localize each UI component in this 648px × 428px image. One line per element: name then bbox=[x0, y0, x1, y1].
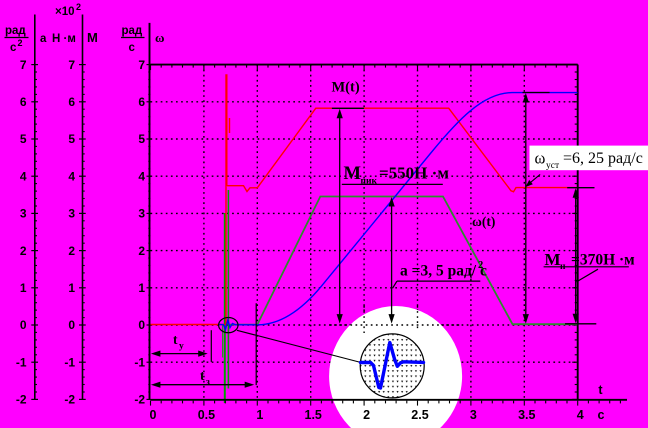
curve w(t) blue bbox=[218, 93, 577, 330]
svg-text:6: 6 bbox=[68, 95, 75, 109]
svg-text:4: 4 bbox=[20, 169, 27, 183]
svg-text:0: 0 bbox=[68, 318, 75, 332]
svg-text:7: 7 bbox=[20, 58, 27, 72]
magnifier white ellipse bbox=[329, 306, 462, 428]
svg-text:5: 5 bbox=[20, 132, 27, 146]
svg-text:ω(t): ω(t) bbox=[472, 214, 495, 229]
w-axis title rad/s bbox=[121, 25, 165, 54]
w_ust white box bbox=[530, 146, 648, 171]
magnified w oscillation waveform blue bbox=[361, 343, 424, 389]
svg-text:рад: рад bbox=[122, 25, 143, 37]
svg-text:-1: -1 bbox=[16, 355, 27, 369]
svg-text:Н ·м: Н ·м bbox=[52, 33, 76, 45]
svg-text:M: M bbox=[344, 164, 361, 184]
svg-text:3: 3 bbox=[20, 207, 27, 221]
svg-text:пик: пик bbox=[361, 177, 378, 187]
svg-text:M: M bbox=[545, 250, 561, 269]
w_ust pointer arrow bbox=[528, 174, 541, 185]
a-axis title rad/s^2 bbox=[5, 25, 48, 54]
svg-text:-2: -2 bbox=[64, 393, 75, 407]
svg-text:ω: ω bbox=[155, 30, 165, 45]
svg-text:M: M bbox=[87, 30, 98, 45]
svg-text:с: с bbox=[10, 42, 17, 54]
svg-text:6: 6 bbox=[138, 95, 145, 109]
svg-text:=370Н ·м: =370Н ·м bbox=[571, 252, 635, 269]
pointer line to magnifier bbox=[237, 330, 361, 362]
svg-text:=550Н ·м: =550Н ·м bbox=[379, 164, 449, 183]
svg-text:2: 2 bbox=[478, 260, 483, 271]
a(t) start-up oscillation spikes green bbox=[222, 325, 224, 358]
svg-text:у: у bbox=[179, 342, 184, 352]
curve a(t) trapezoid dark green bbox=[230, 197, 577, 325]
svg-text:-2: -2 bbox=[16, 393, 27, 407]
a-axis line bbox=[34, 15, 36, 400]
grid horizontal dotted bbox=[151, 102, 578, 362]
svg-text:-1: -1 bbox=[64, 355, 75, 369]
svg-text:2.5: 2.5 bbox=[411, 408, 428, 422]
svg-text:×10: ×10 bbox=[55, 6, 75, 18]
svg-text:1.5: 1.5 bbox=[305, 408, 322, 422]
svg-text:0: 0 bbox=[20, 318, 27, 332]
y=0 dotted line over ellipse bbox=[363, 306, 365, 333]
plot box bbox=[149, 23, 151, 400]
svg-text:2: 2 bbox=[18, 38, 23, 48]
x axis line bbox=[151, 399, 628, 401]
svg-text:ω: ω bbox=[535, 149, 546, 168]
svg-text:5: 5 bbox=[138, 132, 145, 146]
a-axis labels bbox=[16, 58, 27, 407]
svg-text:4: 4 bbox=[138, 169, 145, 183]
svg-text:-2: -2 bbox=[134, 393, 145, 407]
M-axis line bbox=[82, 15, 84, 400]
t_u horizontal double arrow bbox=[154, 353, 205, 355]
svg-text:3: 3 bbox=[138, 207, 145, 221]
M-axis title x10^2 N*m M bbox=[52, 2, 98, 45]
svg-text:0: 0 bbox=[150, 408, 157, 422]
svg-text:t: t bbox=[173, 332, 178, 347]
svg-text:1: 1 bbox=[20, 281, 27, 295]
svg-text:2: 2 bbox=[76, 2, 81, 12]
svg-text:рад: рад bbox=[5, 25, 26, 37]
svg-text:=6, 25 рад/с: =6, 25 рад/с bbox=[563, 150, 643, 167]
svg-text:c: c bbox=[598, 408, 605, 422]
svg-text:с: с bbox=[129, 42, 136, 54]
svg-text:2: 2 bbox=[68, 244, 75, 258]
svg-text:1: 1 bbox=[138, 281, 145, 295]
svg-text:2: 2 bbox=[20, 244, 27, 258]
svg-text:2: 2 bbox=[363, 408, 370, 422]
svg-text:-1: -1 bbox=[134, 355, 145, 369]
svg-text:2: 2 bbox=[138, 244, 145, 258]
small source circle on plot bbox=[219, 318, 238, 333]
svg-text:a =3, 5 рад/ с: a =3, 5 рад/ с bbox=[400, 263, 487, 280]
svg-text:3: 3 bbox=[68, 207, 75, 221]
t_z horizontal double arrow bbox=[154, 384, 251, 386]
Mn right double arrow bbox=[565, 188, 596, 324]
svg-text:7: 7 bbox=[138, 58, 145, 72]
svg-text:1: 1 bbox=[68, 281, 75, 295]
x tick labels bbox=[150, 383, 605, 422]
svg-text:0.5: 0.5 bbox=[198, 408, 215, 422]
grid vertical dotted bbox=[204, 65, 524, 400]
M-axis labels bbox=[64, 58, 75, 407]
svg-text:6: 6 bbox=[20, 95, 27, 109]
svg-text:M(t): M(t) bbox=[332, 80, 360, 96]
svg-text:з: з bbox=[206, 378, 210, 388]
plot border ticks bbox=[147, 65, 578, 400]
curve M(t) red bbox=[151, 74, 578, 324]
svg-text:5: 5 bbox=[68, 132, 75, 146]
w_ust vertical double arrow bbox=[523, 93, 550, 321]
svg-text:уст: уст bbox=[546, 161, 560, 171]
svg-text:3: 3 bbox=[470, 408, 477, 422]
svg-text:1: 1 bbox=[256, 408, 263, 422]
svg-text:4: 4 bbox=[68, 169, 75, 183]
w-axis labels bbox=[134, 58, 145, 407]
svg-text:0: 0 bbox=[138, 318, 145, 332]
svg-text:a: a bbox=[40, 33, 47, 45]
a vertical double arrow bbox=[391, 200, 393, 320]
svg-text:4: 4 bbox=[577, 408, 584, 422]
svg-text:7: 7 bbox=[68, 58, 75, 72]
svg-text:3.5: 3.5 bbox=[518, 408, 535, 422]
svg-text:t: t bbox=[200, 368, 205, 383]
Mpik vertical double arrow bbox=[332, 108, 364, 320]
